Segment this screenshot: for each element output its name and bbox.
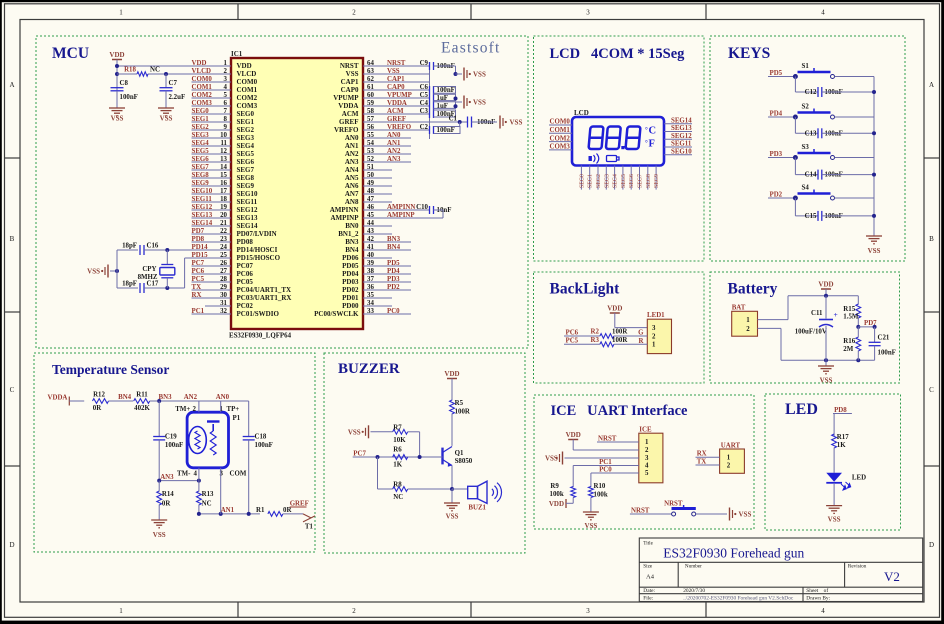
svg-text:COM2: COM2 xyxy=(550,135,571,142)
svg-text:27: 27 xyxy=(220,268,227,275)
svg-text:V2: V2 xyxy=(884,569,900,584)
svg-text:C: C xyxy=(10,386,15,394)
battery icon xyxy=(607,156,617,162)
svg-text:R11: R11 xyxy=(136,391,148,398)
VSS power symbol right 3 xyxy=(499,116,501,129)
svg-text:AN1: AN1 xyxy=(221,507,235,514)
svg-text:A4: A4 xyxy=(646,574,655,581)
svg-text:VSS: VSS xyxy=(828,516,841,524)
svg-text:SEG6: SEG6 xyxy=(237,158,255,166)
svg-text:P1: P1 xyxy=(233,415,241,422)
resistor R17 1K xyxy=(832,434,837,448)
svg-text:COM3: COM3 xyxy=(550,144,571,151)
svg-text:CAP1: CAP1 xyxy=(387,76,405,83)
svg-text:VDD: VDD xyxy=(237,62,252,70)
svg-text:Date:: Date: xyxy=(643,588,655,594)
svg-text:D: D xyxy=(9,541,14,549)
svg-text:5: 5 xyxy=(645,470,649,477)
capacitor C2 100nF xyxy=(429,126,431,134)
svg-text:Temperature Sensor: Temperature Sensor xyxy=(52,362,169,377)
svg-text:R10: R10 xyxy=(594,483,606,490)
svg-text:ACM: ACM xyxy=(387,108,404,115)
svg-text:SEG10: SEG10 xyxy=(671,148,692,155)
svg-text:PC5: PC5 xyxy=(566,338,579,345)
svg-text:C12: C12 xyxy=(805,89,817,96)
svg-text:VSS: VSS xyxy=(584,522,597,530)
svg-text:32: 32 xyxy=(220,308,227,315)
svg-text:ICE: ICE xyxy=(639,427,652,434)
svg-text:F: F xyxy=(649,139,655,150)
svg-text:MCU: MCU xyxy=(52,45,89,62)
svg-text:PD2: PD2 xyxy=(770,192,783,199)
svg-text:43: 43 xyxy=(367,228,374,235)
svg-text:TX: TX xyxy=(697,459,707,466)
svg-text:SEG3: SEG3 xyxy=(237,134,255,142)
svg-text:BN4: BN4 xyxy=(345,246,359,254)
svg-text:VDDA: VDDA xyxy=(48,394,68,401)
svg-text:SEG7: SEG7 xyxy=(237,166,255,174)
svg-text:BN3: BN3 xyxy=(387,236,401,243)
svg-text:TP+: TP+ xyxy=(227,406,240,413)
ground VSS under C7 xyxy=(158,107,174,109)
svg-text:BN0: BN0 xyxy=(345,222,359,230)
svg-text:C16: C16 xyxy=(147,243,159,250)
svg-text:BN4: BN4 xyxy=(387,244,401,251)
svg-text:R1: R1 xyxy=(256,507,265,514)
svg-text:100R: 100R xyxy=(455,409,471,416)
svg-text:R12: R12 xyxy=(93,391,105,398)
svg-text:47: 47 xyxy=(367,196,374,203)
svg-text:AN4: AN4 xyxy=(345,166,359,174)
KEYS block outline xyxy=(710,36,905,261)
svg-text:R3: R3 xyxy=(591,337,600,344)
speaker BUZ1 xyxy=(452,488,468,490)
svg-text:C: C xyxy=(929,386,934,394)
svg-text:4: 4 xyxy=(645,463,649,470)
svg-text:R9: R9 xyxy=(550,483,559,490)
svg-text:LED1: LED1 xyxy=(647,312,665,319)
wire emitter to node xyxy=(451,466,453,490)
svg-text:PD15/HOSCO: PD15/HOSCO xyxy=(237,254,281,262)
battery top rail wire xyxy=(788,295,858,297)
svg-text:100nF: 100nF xyxy=(437,127,455,134)
svg-text:VDD: VDD xyxy=(549,500,564,508)
svg-text:SEG1: SEG1 xyxy=(237,118,255,126)
serpentine wire loops around cap values xyxy=(434,87,456,94)
svg-text:SEG7: SEG7 xyxy=(192,164,210,171)
svg-text:BUZZER: BUZZER xyxy=(338,361,400,377)
svg-text:Title: Title xyxy=(643,541,653,547)
svg-text:VLCD: VLCD xyxy=(237,70,257,78)
svg-text:AMPINN: AMPINN xyxy=(387,204,415,211)
svg-text:5: 5 xyxy=(224,92,228,99)
svg-text:VSS: VSS xyxy=(346,70,359,78)
svg-text:BN1_2: BN1_2 xyxy=(338,230,359,238)
svg-text:PC07: PC07 xyxy=(237,262,254,270)
svg-text:59: 59 xyxy=(367,100,374,107)
svg-text:1: 1 xyxy=(119,9,123,17)
svg-text:7: 7 xyxy=(224,108,228,115)
svg-text:37: 37 xyxy=(367,276,374,283)
svg-text:PC06: PC06 xyxy=(237,270,254,278)
svg-text:R15: R15 xyxy=(843,306,855,313)
wire VLCD row xyxy=(117,73,137,75)
svg-text:36: 36 xyxy=(367,284,374,291)
svg-text:VSS: VSS xyxy=(510,119,523,127)
svg-text:SEG10: SEG10 xyxy=(237,190,259,198)
svg-text:AN1: AN1 xyxy=(345,142,359,150)
wire VDD to LED1 pin3 xyxy=(614,313,616,328)
svg-text:29: 29 xyxy=(220,284,227,291)
svg-text:SEG6: SEG6 xyxy=(192,156,210,163)
svg-text:AN0: AN0 xyxy=(387,132,401,139)
svg-text:2: 2 xyxy=(352,607,356,615)
svg-text:SEG5: SEG5 xyxy=(192,148,210,155)
wire BAT pin1 to rail xyxy=(758,319,789,321)
svg-text:VSS: VSS xyxy=(348,428,361,436)
svg-text:COM0: COM0 xyxy=(192,76,213,83)
svg-text:PD8: PD8 xyxy=(192,236,205,243)
LCD COM pins xyxy=(549,124,572,126)
svg-text:PD04: PD04 xyxy=(342,270,359,278)
LCD block outline xyxy=(534,36,705,261)
svg-text:AN7: AN7 xyxy=(345,190,359,198)
svg-text:BUZ1: BUZ1 xyxy=(468,505,486,512)
svg-text:35: 35 xyxy=(367,292,374,299)
svg-text:SEG12: SEG12 xyxy=(671,133,692,140)
wire VDD to pin1 xyxy=(116,60,118,92)
svg-text:S2: S2 xyxy=(802,104,810,111)
svg-text:11: 11 xyxy=(220,140,227,147)
svg-text:R6: R6 xyxy=(393,447,402,454)
svg-text:402K: 402K xyxy=(134,405,150,412)
svg-text:D: D xyxy=(929,541,934,549)
svg-text:57: 57 xyxy=(367,116,374,123)
svg-text:AN5: AN5 xyxy=(345,174,359,182)
svg-text:LCD 4COM * 15Seg: LCD 4COM * 15Seg xyxy=(550,46,686,62)
title block row lines xyxy=(639,561,922,563)
svg-text:PD08: PD08 xyxy=(237,238,254,246)
svg-text:A: A xyxy=(9,81,14,89)
svg-text:NC: NC xyxy=(393,494,403,501)
svg-text:SEG0: SEG0 xyxy=(192,108,210,115)
sensor P1 body xyxy=(187,412,228,468)
svg-text:C6: C6 xyxy=(420,84,429,91)
svg-text:C19: C19 xyxy=(165,434,177,441)
svg-text:C5: C5 xyxy=(420,92,429,99)
svg-text:18pF: 18pF xyxy=(122,281,137,288)
capacitor C4 1uF xyxy=(429,102,431,110)
svg-text:1: 1 xyxy=(119,607,123,615)
svg-text:B: B xyxy=(10,235,15,243)
svg-text:PC05: PC05 xyxy=(237,278,254,286)
svg-text:File:: File: xyxy=(643,596,653,602)
capacitor C1 100nF xyxy=(411,121,468,123)
svg-text:TM-: TM- xyxy=(177,471,191,478)
seven-segment digit 1 xyxy=(589,127,604,150)
svg-text:2: 2 xyxy=(352,9,356,17)
svg-text:PD00: PD00 xyxy=(342,302,359,310)
svg-text:NRST: NRST xyxy=(340,62,359,70)
battery bottom rail wire xyxy=(781,359,875,361)
svg-text:10K: 10K xyxy=(393,437,406,444)
svg-text:PC6: PC6 xyxy=(566,329,579,336)
resistor R15 1.5M xyxy=(857,296,859,305)
LCD bottom SEG pins xyxy=(580,166,582,190)
ground VSS temperature sensor xyxy=(151,519,167,521)
svg-text:SEG8: SEG8 xyxy=(646,174,652,188)
svg-text:23: 23 xyxy=(220,236,227,243)
svg-text:PC7: PC7 xyxy=(192,260,205,267)
svg-text:NRST: NRST xyxy=(387,60,406,67)
svg-text:R18: R18 xyxy=(124,67,136,74)
svg-text:4: 4 xyxy=(194,471,198,478)
svg-text:ACM: ACM xyxy=(342,110,359,118)
svg-text:54: 54 xyxy=(367,140,374,147)
svg-text:NC: NC xyxy=(202,501,212,508)
resistor R18 NC xyxy=(137,72,148,76)
battery ground VSS xyxy=(825,360,827,366)
right cap bus xyxy=(429,66,431,139)
svg-text:4: 4 xyxy=(821,9,825,17)
svg-text:PD4: PD4 xyxy=(770,111,783,118)
svg-text:S8050: S8050 xyxy=(455,458,473,465)
svg-text:C21: C21 xyxy=(878,335,890,342)
wire crystal left rail xyxy=(116,250,118,288)
crystal CPY 8MHZ xyxy=(166,250,168,264)
resistor R16 2M xyxy=(856,337,861,351)
svg-text:SEG0: SEG0 xyxy=(237,110,255,118)
svg-text:BAT: BAT xyxy=(732,305,746,312)
svg-text:100R: 100R xyxy=(612,329,628,336)
svg-text:C1: C1 xyxy=(449,116,458,123)
svg-text:10: 10 xyxy=(220,132,227,139)
svg-text:PD01: PD01 xyxy=(342,294,359,302)
svg-text:GREF: GREF xyxy=(339,118,358,126)
svg-text:PC01/SWDIO: PC01/SWDIO xyxy=(237,310,280,318)
capacitor C3 100nF xyxy=(429,110,431,118)
svg-text:NRST: NRST xyxy=(631,507,650,514)
svg-text:C14: C14 xyxy=(805,172,817,179)
svg-text:15: 15 xyxy=(220,172,227,179)
svg-text:SEG6: SEG6 xyxy=(629,174,635,188)
svg-text:AMPINN: AMPINN xyxy=(330,206,359,214)
svg-text:G: G xyxy=(638,330,644,337)
svg-text:GREF: GREF xyxy=(387,116,406,123)
svg-text:NRST: NRST xyxy=(598,435,617,442)
svg-text:CAP0: CAP0 xyxy=(387,84,405,91)
chip right pin stubs and numbers xyxy=(363,65,430,67)
svg-text:COM1: COM1 xyxy=(550,127,571,134)
svg-text:VSS: VSS xyxy=(868,247,881,255)
ICE block outline xyxy=(534,395,754,529)
svg-text:VPUMP: VPUMP xyxy=(387,92,413,99)
svg-text:S4: S4 xyxy=(802,185,810,192)
svg-text:PD05: PD05 xyxy=(342,262,359,270)
net PD7 wire xyxy=(856,325,860,329)
svg-text:SEG9: SEG9 xyxy=(237,182,255,190)
decimal point xyxy=(621,146,624,149)
svg-text:AN8: AN8 xyxy=(345,198,359,206)
svg-text:100nF: 100nF xyxy=(165,442,183,449)
transistor Q1 S8050 xyxy=(441,448,443,465)
svg-text:SEG9: SEG9 xyxy=(654,174,660,188)
svg-text:63: 63 xyxy=(367,68,374,75)
svg-text:14: 14 xyxy=(220,164,227,171)
svg-text:BN4: BN4 xyxy=(118,394,132,401)
resistor R8 NC xyxy=(377,457,379,489)
capacitor C8 100nF xyxy=(111,87,124,89)
svg-text:31: 31 xyxy=(220,300,227,307)
svg-text:50: 50 xyxy=(367,172,374,179)
buzzer ground VSS xyxy=(451,489,453,503)
svg-text:PD4: PD4 xyxy=(387,268,400,275)
svg-text:C17: C17 xyxy=(147,281,159,288)
capacitor C19 100nF xyxy=(158,401,160,437)
svg-text:1uF: 1uF xyxy=(437,103,449,110)
svg-text:SEG14: SEG14 xyxy=(237,222,259,230)
svg-text:20: 20 xyxy=(220,212,227,219)
svg-text:18pF: 18pF xyxy=(122,243,137,250)
svg-text:R5: R5 xyxy=(455,400,464,407)
svg-text:SEG2: SEG2 xyxy=(192,124,210,131)
svg-text:1: 1 xyxy=(220,406,224,413)
LCD SEG right pins xyxy=(664,123,692,125)
svg-text:28: 28 xyxy=(220,276,227,283)
svg-text:1: 1 xyxy=(727,455,731,462)
svg-text:AN0: AN0 xyxy=(216,394,230,401)
svg-text:100nF: 100nF xyxy=(120,94,138,101)
resistor R7 10K xyxy=(393,429,408,434)
svg-text:SEG12: SEG12 xyxy=(237,206,259,214)
capacitor C6 100nF xyxy=(429,86,431,94)
svg-text:53: 53 xyxy=(367,148,374,155)
svg-text:Number: Number xyxy=(685,564,702,570)
svg-text:39: 39 xyxy=(367,260,374,267)
resistor R14 0R xyxy=(157,491,162,505)
svg-text:PD02: PD02 xyxy=(342,286,359,294)
svg-text:SEG5: SEG5 xyxy=(237,150,255,158)
VSS power symbol (button) xyxy=(729,508,731,521)
svg-text:PC5: PC5 xyxy=(192,276,205,283)
svg-text:SEG1: SEG1 xyxy=(192,116,210,123)
svg-text:LED: LED xyxy=(852,475,866,482)
svg-text:22: 22 xyxy=(220,228,227,235)
svg-text:SEG13: SEG13 xyxy=(192,212,213,219)
svg-text:PD5: PD5 xyxy=(387,260,400,267)
resistor R12 0R xyxy=(93,399,109,404)
svg-text:VDD: VDD xyxy=(607,305,622,313)
svg-text:VPUMP: VPUMP xyxy=(333,94,359,102)
svg-text:BackLight: BackLight xyxy=(550,281,621,298)
svg-text:PD7: PD7 xyxy=(192,228,205,235)
svg-text:TX: TX xyxy=(192,284,202,291)
svg-text:41: 41 xyxy=(367,244,374,251)
svg-text:3: 3 xyxy=(586,9,590,17)
svg-text:R17: R17 xyxy=(837,434,849,441)
resistor R13 NC xyxy=(197,491,202,505)
title block column lines xyxy=(677,562,679,587)
svg-text:SEG2: SEG2 xyxy=(596,174,602,188)
svg-text:0R: 0R xyxy=(93,405,102,412)
svg-text:PC02: PC02 xyxy=(237,302,254,310)
svg-text:VDDA: VDDA xyxy=(387,100,407,107)
sensor thermistor ellipse xyxy=(189,427,207,454)
svg-text:R8: R8 xyxy=(393,482,402,489)
svg-text:SEG14: SEG14 xyxy=(671,117,692,124)
svg-text:SEG2: SEG2 xyxy=(237,126,255,134)
capacitor C21 100nF xyxy=(874,327,876,342)
capacitor C15 100nF xyxy=(794,198,796,216)
svg-text:VSS: VSS xyxy=(153,531,166,539)
svg-text:PD2: PD2 xyxy=(387,284,400,291)
svg-text:42: 42 xyxy=(367,236,374,243)
svg-text:2.2uF: 2.2uF xyxy=(169,94,186,101)
svg-text:SEG9: SEG9 xyxy=(192,180,210,187)
capacitor C5 1uF xyxy=(429,94,431,102)
keys ground VSS xyxy=(866,235,882,237)
svg-text:C10: C10 xyxy=(416,204,428,211)
Temperature Sensor block outline xyxy=(34,353,315,552)
svg-text:2: 2 xyxy=(652,333,656,340)
svg-text:SEG13: SEG13 xyxy=(237,214,259,222)
svg-text:C3: C3 xyxy=(420,108,429,115)
BackLight block outline xyxy=(534,272,705,383)
svg-text:RX: RX xyxy=(697,451,707,458)
svg-text:NC: NC xyxy=(150,67,160,74)
wire LED to ground xyxy=(833,483,835,506)
svg-text:C11: C11 xyxy=(811,310,823,317)
svg-text:0R: 0R xyxy=(283,507,292,514)
svg-text:60: 60 xyxy=(367,92,374,99)
svg-text:51: 51 xyxy=(367,164,374,171)
resistor R1 0R xyxy=(268,512,283,517)
svg-text:VSS: VSS xyxy=(739,511,752,519)
svg-text:AN3: AN3 xyxy=(345,158,359,166)
svg-text:3: 3 xyxy=(652,325,656,332)
svg-text:PC0: PC0 xyxy=(387,308,400,315)
svg-text:C4: C4 xyxy=(420,100,429,107)
svg-text:PD5: PD5 xyxy=(770,70,783,77)
svg-text:ES32F0930_LQFP64: ES32F0930_LQFP64 xyxy=(229,333,292,340)
svg-text:VSS: VSS xyxy=(387,68,400,75)
ground VSS (LED) xyxy=(826,505,842,507)
svg-text:SEG11: SEG11 xyxy=(237,198,258,206)
capacitor C17 18pF xyxy=(117,287,138,289)
svg-text:COM1: COM1 xyxy=(237,86,258,94)
svg-text:SEG12: SEG12 xyxy=(192,204,213,211)
svg-text:IC1: IC1 xyxy=(231,50,243,58)
svg-text:COM3: COM3 xyxy=(237,102,258,110)
svg-text:UART: UART xyxy=(721,442,741,449)
svg-text:3: 3 xyxy=(645,455,649,462)
svg-text:SEG7: SEG7 xyxy=(638,174,644,188)
ground VSS under R10 xyxy=(583,511,599,513)
svg-text:AN3: AN3 xyxy=(160,474,174,481)
svg-text:26: 26 xyxy=(220,260,227,267)
svg-text:2: 2 xyxy=(746,326,750,333)
svg-text:C2: C2 xyxy=(420,124,429,131)
capacitor C12 100nF xyxy=(794,77,796,93)
svg-text:64: 64 xyxy=(367,60,374,67)
svg-text:VDD: VDD xyxy=(444,370,459,378)
svg-text:SEG0: SEG0 xyxy=(579,174,585,188)
wire sensor pin3 down xyxy=(220,468,222,514)
svg-text:38: 38 xyxy=(367,268,374,275)
svg-text:PD8: PD8 xyxy=(834,407,847,414)
svg-text:49: 49 xyxy=(367,180,374,187)
svg-text:9: 9 xyxy=(224,124,228,131)
